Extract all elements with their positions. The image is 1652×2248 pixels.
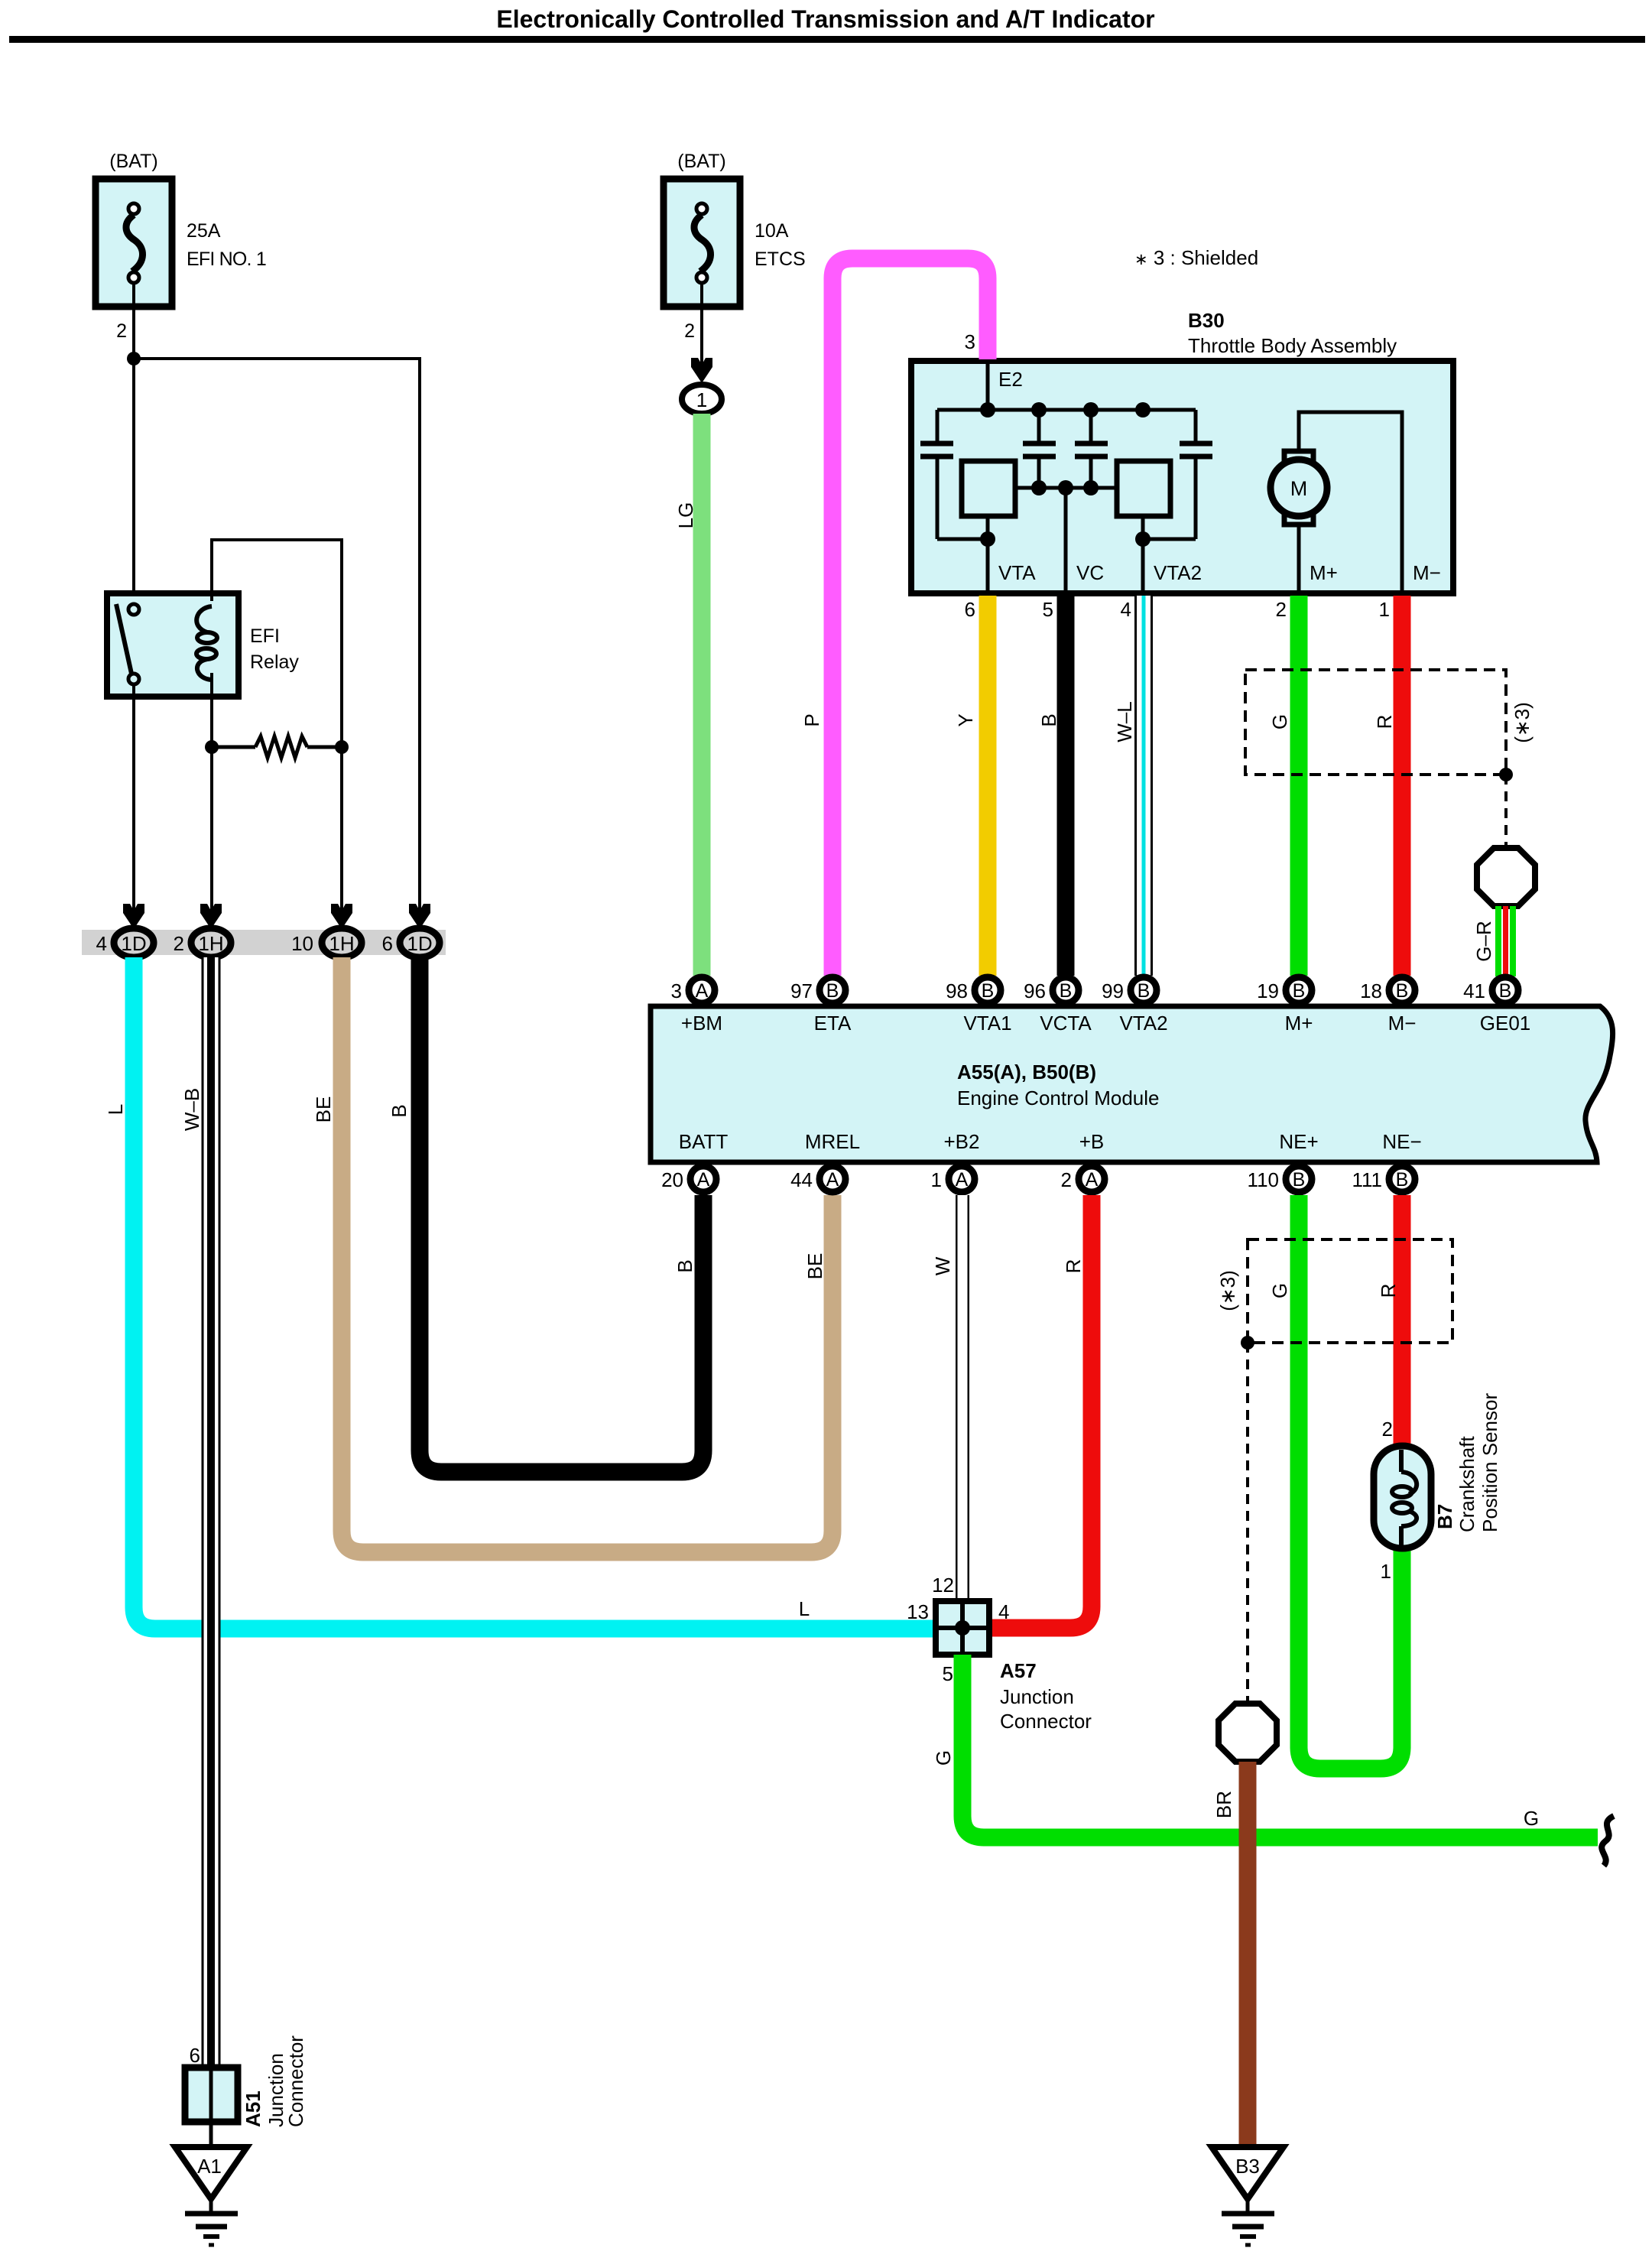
- svg-text:10A: 10A: [755, 220, 789, 242]
- pin 1 A +B2: [931, 1130, 980, 1192]
- svg-text:R: R: [1377, 1284, 1400, 1298]
- throttle body assembly B30: [911, 309, 1453, 593]
- svg-text:MREL: MREL: [805, 1130, 860, 1153]
- svg-text:Throttle Body Assembly: Throttle Body Assembly: [1188, 334, 1397, 357]
- node resistor right: [335, 740, 349, 754]
- svg-text:13: 13: [907, 1600, 929, 1623]
- arrow into 1H(10): [331, 904, 352, 929]
- wire A51 to ground A1: [209, 2122, 213, 2149]
- svg-text:2: 2: [1276, 598, 1287, 621]
- svg-text:1D: 1D: [121, 932, 146, 955]
- svg-text:W–L: W–L: [1113, 701, 1136, 742]
- svg-text:+BM: +BM: [681, 1012, 722, 1035]
- svg-text:6: 6: [965, 598, 975, 621]
- svg-text:10: 10: [291, 932, 313, 955]
- svg-text:96: 96: [1024, 979, 1046, 1002]
- svg-text:18: 18: [1360, 979, 1382, 1002]
- svg-text:G: G: [1268, 1283, 1291, 1298]
- pin 110 B NE+: [1248, 1130, 1319, 1192]
- svg-text:VTA1: VTA1: [963, 1012, 1011, 1035]
- svg-text:B: B: [1293, 1169, 1306, 1191]
- svg-text:BR: BR: [1212, 1791, 1235, 1818]
- wire BR octagon to ground B3: [1239, 1762, 1257, 2147]
- svg-text:6: 6: [190, 2044, 200, 2067]
- svg-text:A: A: [826, 1169, 839, 1191]
- wire VTA internal: [937, 516, 995, 593]
- svg-text:6: 6: [382, 932, 393, 955]
- svg-text:M−: M−: [1388, 1012, 1417, 1035]
- svg-text:5: 5: [1043, 598, 1053, 621]
- svg-text:(BAT): (BAT): [677, 151, 725, 172]
- pin 19 B M+: [1257, 977, 1313, 1035]
- fuse 10A ETCS: [664, 151, 806, 342]
- svg-text:2: 2: [174, 932, 184, 955]
- svg-text:L: L: [104, 1104, 127, 1115]
- wire motor M+ internal: [1297, 525, 1301, 593]
- svg-text:ETA: ETA: [814, 1012, 852, 1035]
- wire B VC to ECM VCTA: [1057, 596, 1075, 976]
- svg-text:A: A: [956, 1169, 969, 1191]
- svg-text:A51: A51: [242, 2090, 265, 2127]
- wire L cyan from 1D(4) to A57: [134, 957, 937, 1629]
- wire BE from 1H(10) to ECM MREL: [342, 957, 832, 1552]
- svg-text:G: G: [1524, 1807, 1539, 1830]
- ground A1: [175, 2147, 247, 2245]
- svg-text:+B2: +B2: [944, 1130, 980, 1153]
- arrow into 1D(4): [123, 904, 144, 929]
- svg-text:W: W: [931, 1256, 954, 1275]
- node bus dots: [980, 402, 995, 417]
- svg-text:R: R: [1062, 1259, 1085, 1274]
- pin 3 A +BM: [671, 977, 723, 1035]
- svg-text:Position Sensor: Position Sensor: [1478, 1393, 1501, 1532]
- svg-text:G–R: G–R: [1472, 921, 1495, 961]
- ground B3: [1212, 2147, 1284, 2245]
- svg-text:B: B: [1499, 980, 1512, 1002]
- svg-text:(∗3): (∗3): [1511, 702, 1534, 743]
- node junction below fuse1: [127, 352, 141, 365]
- wire VTA2 internal: [1135, 516, 1196, 593]
- crankshaft position sensor B7: [1374, 1393, 1501, 1583]
- wire E2 pin3 internal: [986, 361, 990, 410]
- svg-text:B30: B30: [1188, 309, 1225, 332]
- svg-text:P: P: [800, 713, 823, 726]
- svg-text:Crankshaft: Crankshaft: [1456, 1436, 1478, 1532]
- shield octagon lower: [1219, 1704, 1277, 1762]
- connector 1H(10): [291, 928, 362, 957]
- wire node right branch down to connector 1D(6): [134, 359, 420, 927]
- svg-text:W–B: W–B: [180, 1088, 203, 1131]
- svg-text:A: A: [697, 1169, 710, 1191]
- svg-text:A: A: [1086, 1169, 1099, 1191]
- svg-text:EFI: EFI: [250, 625, 280, 647]
- fuse 25A EFI NO. 1: [96, 151, 266, 342]
- svg-text:VCTA: VCTA: [1040, 1012, 1092, 1035]
- wire VC internal: [1064, 488, 1068, 593]
- shield dashed box upper (*3): [1245, 670, 1506, 775]
- svg-text:M+: M+: [1310, 561, 1338, 584]
- svg-text:110: 110: [1248, 1168, 1279, 1191]
- svg-text:97: 97: [790, 979, 813, 1002]
- wire LG fuse ETCS to ECM +BM: [693, 414, 711, 976]
- wire G M+ to ECM M+: [1290, 596, 1308, 976]
- wire R ECM +B to A57 pin4: [988, 1195, 1092, 1628]
- arrow into connector 1: [691, 358, 712, 383]
- wire P ECM ETA to E2 pin3: [832, 258, 988, 976]
- pin 98 B VTA1: [946, 977, 1011, 1035]
- svg-text:25A: 25A: [187, 220, 221, 242]
- svg-text:B: B: [1037, 713, 1060, 726]
- connector 1H(2): [174, 928, 231, 957]
- svg-text:4: 4: [1121, 598, 1131, 621]
- svg-text:B: B: [1060, 980, 1073, 1002]
- svg-text:VTA2: VTA2: [1154, 561, 1202, 584]
- wire Y VTA to ECM VTA1: [979, 596, 997, 976]
- connector 1D(4): [96, 928, 154, 957]
- wire G A57 pin5 to splice: [962, 1655, 1598, 1837]
- pin 44 A MREL: [790, 1130, 860, 1192]
- pin 96 B VCTA: [1024, 977, 1092, 1035]
- pin 97 B ETA: [790, 977, 852, 1035]
- svg-text:VTA2: VTA2: [1119, 1012, 1167, 1035]
- wire shield drain dashed lower: [1246, 1343, 1249, 1704]
- resistor between relay coil branches: [212, 736, 342, 758]
- wire G-R octagon to ECM GE01: [1495, 906, 1516, 976]
- svg-text:EFI NO. 1: EFI NO. 1: [187, 249, 266, 270]
- svg-text:4: 4: [998, 1600, 1009, 1623]
- node shield dot lower: [1241, 1336, 1254, 1350]
- break symbol at wire end: [1602, 1816, 1614, 1866]
- svg-text:VC: VC: [1076, 561, 1104, 584]
- wire relay coil top loop to connector 1H(10): [212, 540, 342, 927]
- title: [9, 5, 1645, 43]
- svg-text:BE: BE: [312, 1096, 335, 1123]
- svg-text:GE01: GE01: [1480, 1012, 1531, 1035]
- svg-text:Engine Control Module: Engine Control Module: [957, 1087, 1160, 1109]
- wire R M- to ECM M-: [1394, 596, 1411, 976]
- sensor element left square: [962, 461, 1015, 516]
- motor M: [1271, 451, 1327, 525]
- connector oval 1: [682, 385, 722, 414]
- svg-text:∗ 3 : Shielded: ∗ 3 : Shielded: [1134, 246, 1258, 269]
- svg-text:1D: 1D: [407, 932, 432, 955]
- svg-text:2: 2: [1382, 1418, 1393, 1441]
- svg-text:44: 44: [790, 1168, 813, 1191]
- svg-text:Connector: Connector: [284, 2035, 307, 2127]
- svg-text:4: 4: [96, 932, 107, 955]
- svg-text:1: 1: [1379, 598, 1390, 621]
- svg-text:3: 3: [965, 330, 975, 353]
- svg-text:Electronically Controlled Tran: Electronically Controlled Transmission a…: [496, 5, 1154, 33]
- svg-text:98: 98: [946, 979, 968, 1002]
- svg-text:2: 2: [684, 320, 695, 342]
- svg-text:3: 3: [671, 979, 682, 1002]
- svg-text:Junction: Junction: [1000, 1685, 1074, 1708]
- svg-text:Relay: Relay: [250, 651, 299, 673]
- pin 18 B M-: [1360, 977, 1416, 1035]
- capacitor C1 left: [920, 410, 953, 539]
- pin 41 B GE01: [1463, 977, 1530, 1035]
- svg-text:2: 2: [1061, 1168, 1072, 1191]
- wire fuse1 pin2 down to node: [132, 281, 135, 359]
- svg-text:LG: LG: [674, 502, 697, 529]
- arrow into 1D(6): [409, 904, 430, 929]
- wire motor M- internal: [1299, 412, 1402, 593]
- svg-text:B: B: [1138, 980, 1151, 1002]
- sensor element right square: [1117, 461, 1170, 516]
- connector 1D(6): [382, 928, 440, 957]
- svg-text:B: B: [1396, 1169, 1409, 1191]
- svg-text:B: B: [826, 980, 839, 1002]
- svg-text:M: M: [1290, 477, 1308, 500]
- wire W-B from 1H(2) to A51: [202, 957, 221, 2068]
- shield octagon upper: [1477, 848, 1535, 906]
- svg-text:111: 111: [1352, 1168, 1382, 1191]
- wire B from 1D(6) to ECM BATT: [420, 957, 703, 1472]
- svg-text:B: B: [673, 1259, 696, 1272]
- pin 111 B NE-: [1352, 1130, 1421, 1192]
- svg-text:2: 2: [116, 320, 127, 342]
- svg-text:(∗3): (∗3): [1216, 1270, 1239, 1311]
- svg-text:1: 1: [1381, 1560, 1391, 1583]
- svg-text:E2: E2: [998, 368, 1023, 391]
- internal top bus: [937, 408, 1196, 412]
- svg-text:19: 19: [1257, 979, 1279, 1002]
- svg-text:G: G: [932, 1750, 955, 1766]
- pin 20 A BATT: [661, 1130, 728, 1192]
- junction connector A57: [907, 1574, 1092, 1733]
- svg-text:BATT: BATT: [679, 1130, 729, 1153]
- svg-text:B: B: [1293, 980, 1306, 1002]
- wire relay coil bottom to connector 1H(2): [210, 673, 213, 927]
- svg-text:(BAT): (BAT): [109, 151, 157, 172]
- pin 99 B VTA2: [1102, 977, 1167, 1035]
- wire G ECM NE+ to sensor pin1: [1299, 1195, 1402, 1769]
- svg-text:B: B: [982, 980, 995, 1002]
- svg-text:B: B: [1396, 980, 1409, 1002]
- internal mid bus: [1015, 486, 1117, 490]
- arrow into 1H(2): [200, 904, 222, 929]
- node shield dot upper: [1499, 768, 1513, 781]
- relay EFI Relay: [107, 593, 299, 697]
- svg-text:BE: BE: [803, 1253, 826, 1280]
- svg-text:A: A: [696, 980, 709, 1002]
- svg-text:B3: B3: [1235, 2155, 1260, 2178]
- svg-text:20: 20: [661, 1168, 683, 1191]
- wire fuse2 pin2 down to connector 1: [700, 281, 703, 376]
- svg-text:12: 12: [932, 1574, 954, 1597]
- node resistor left: [205, 740, 219, 754]
- svg-text:41: 41: [1463, 979, 1485, 1002]
- wire shield drain dashed upper: [1504, 775, 1508, 849]
- svg-text:L: L: [799, 1597, 810, 1620]
- wire W-L VTA2 to ECM VTA2: [1134, 596, 1153, 976]
- svg-text:Connector: Connector: [1000, 1710, 1092, 1733]
- node mid dots: [1031, 480, 1047, 495]
- shield dashed box lower (*3): [1248, 1239, 1452, 1343]
- svg-text:VTA: VTA: [998, 561, 1036, 584]
- wire W ECM +B2 to A57 pin12: [956, 1195, 969, 1603]
- capacitor C2: [1023, 410, 1056, 488]
- pin numbers below box: [965, 598, 1390, 621]
- capacitor C3: [1075, 410, 1108, 488]
- svg-text:A57: A57: [1000, 1659, 1037, 1682]
- svg-text:1H: 1H: [329, 932, 354, 955]
- svg-text:A55(A), B50(B): A55(A), B50(B): [957, 1061, 1096, 1083]
- svg-text:5: 5: [943, 1662, 953, 1685]
- svg-text:ETCS: ETCS: [755, 249, 806, 270]
- svg-text:1: 1: [696, 388, 707, 411]
- svg-text:1: 1: [931, 1168, 942, 1191]
- svg-text:99: 99: [1102, 979, 1124, 1002]
- svg-text:G: G: [1268, 714, 1291, 729]
- svg-text:NE−: NE−: [1382, 1130, 1421, 1153]
- internal pin labels: [998, 561, 1441, 584]
- connector bus band: [82, 930, 446, 955]
- wire node to relay switch: [132, 359, 135, 593]
- junction connector A51: [185, 2035, 307, 2127]
- svg-text:Y: Y: [954, 713, 977, 726]
- pin 2 A +B: [1061, 1130, 1105, 1192]
- svg-text:M+: M+: [1285, 1012, 1313, 1035]
- wire relay switch bottom to connector 1D(4): [132, 683, 135, 927]
- capacitor C4 right: [1180, 410, 1212, 539]
- svg-text:R: R: [1373, 715, 1396, 729]
- svg-text:B7: B7: [1433, 1504, 1456, 1529]
- wire R ECM NE- to sensor pin2: [1394, 1195, 1411, 1447]
- ECM A55(A) B50(B) Engine Control Module: [651, 1006, 1613, 1162]
- svg-text:+B: +B: [1079, 1130, 1105, 1153]
- svg-text:1H: 1H: [198, 932, 223, 955]
- svg-text:M−: M−: [1413, 561, 1441, 584]
- svg-text:A1: A1: [197, 2155, 222, 2178]
- svg-text:NE+: NE+: [1279, 1130, 1318, 1153]
- svg-text:B: B: [388, 1104, 411, 1117]
